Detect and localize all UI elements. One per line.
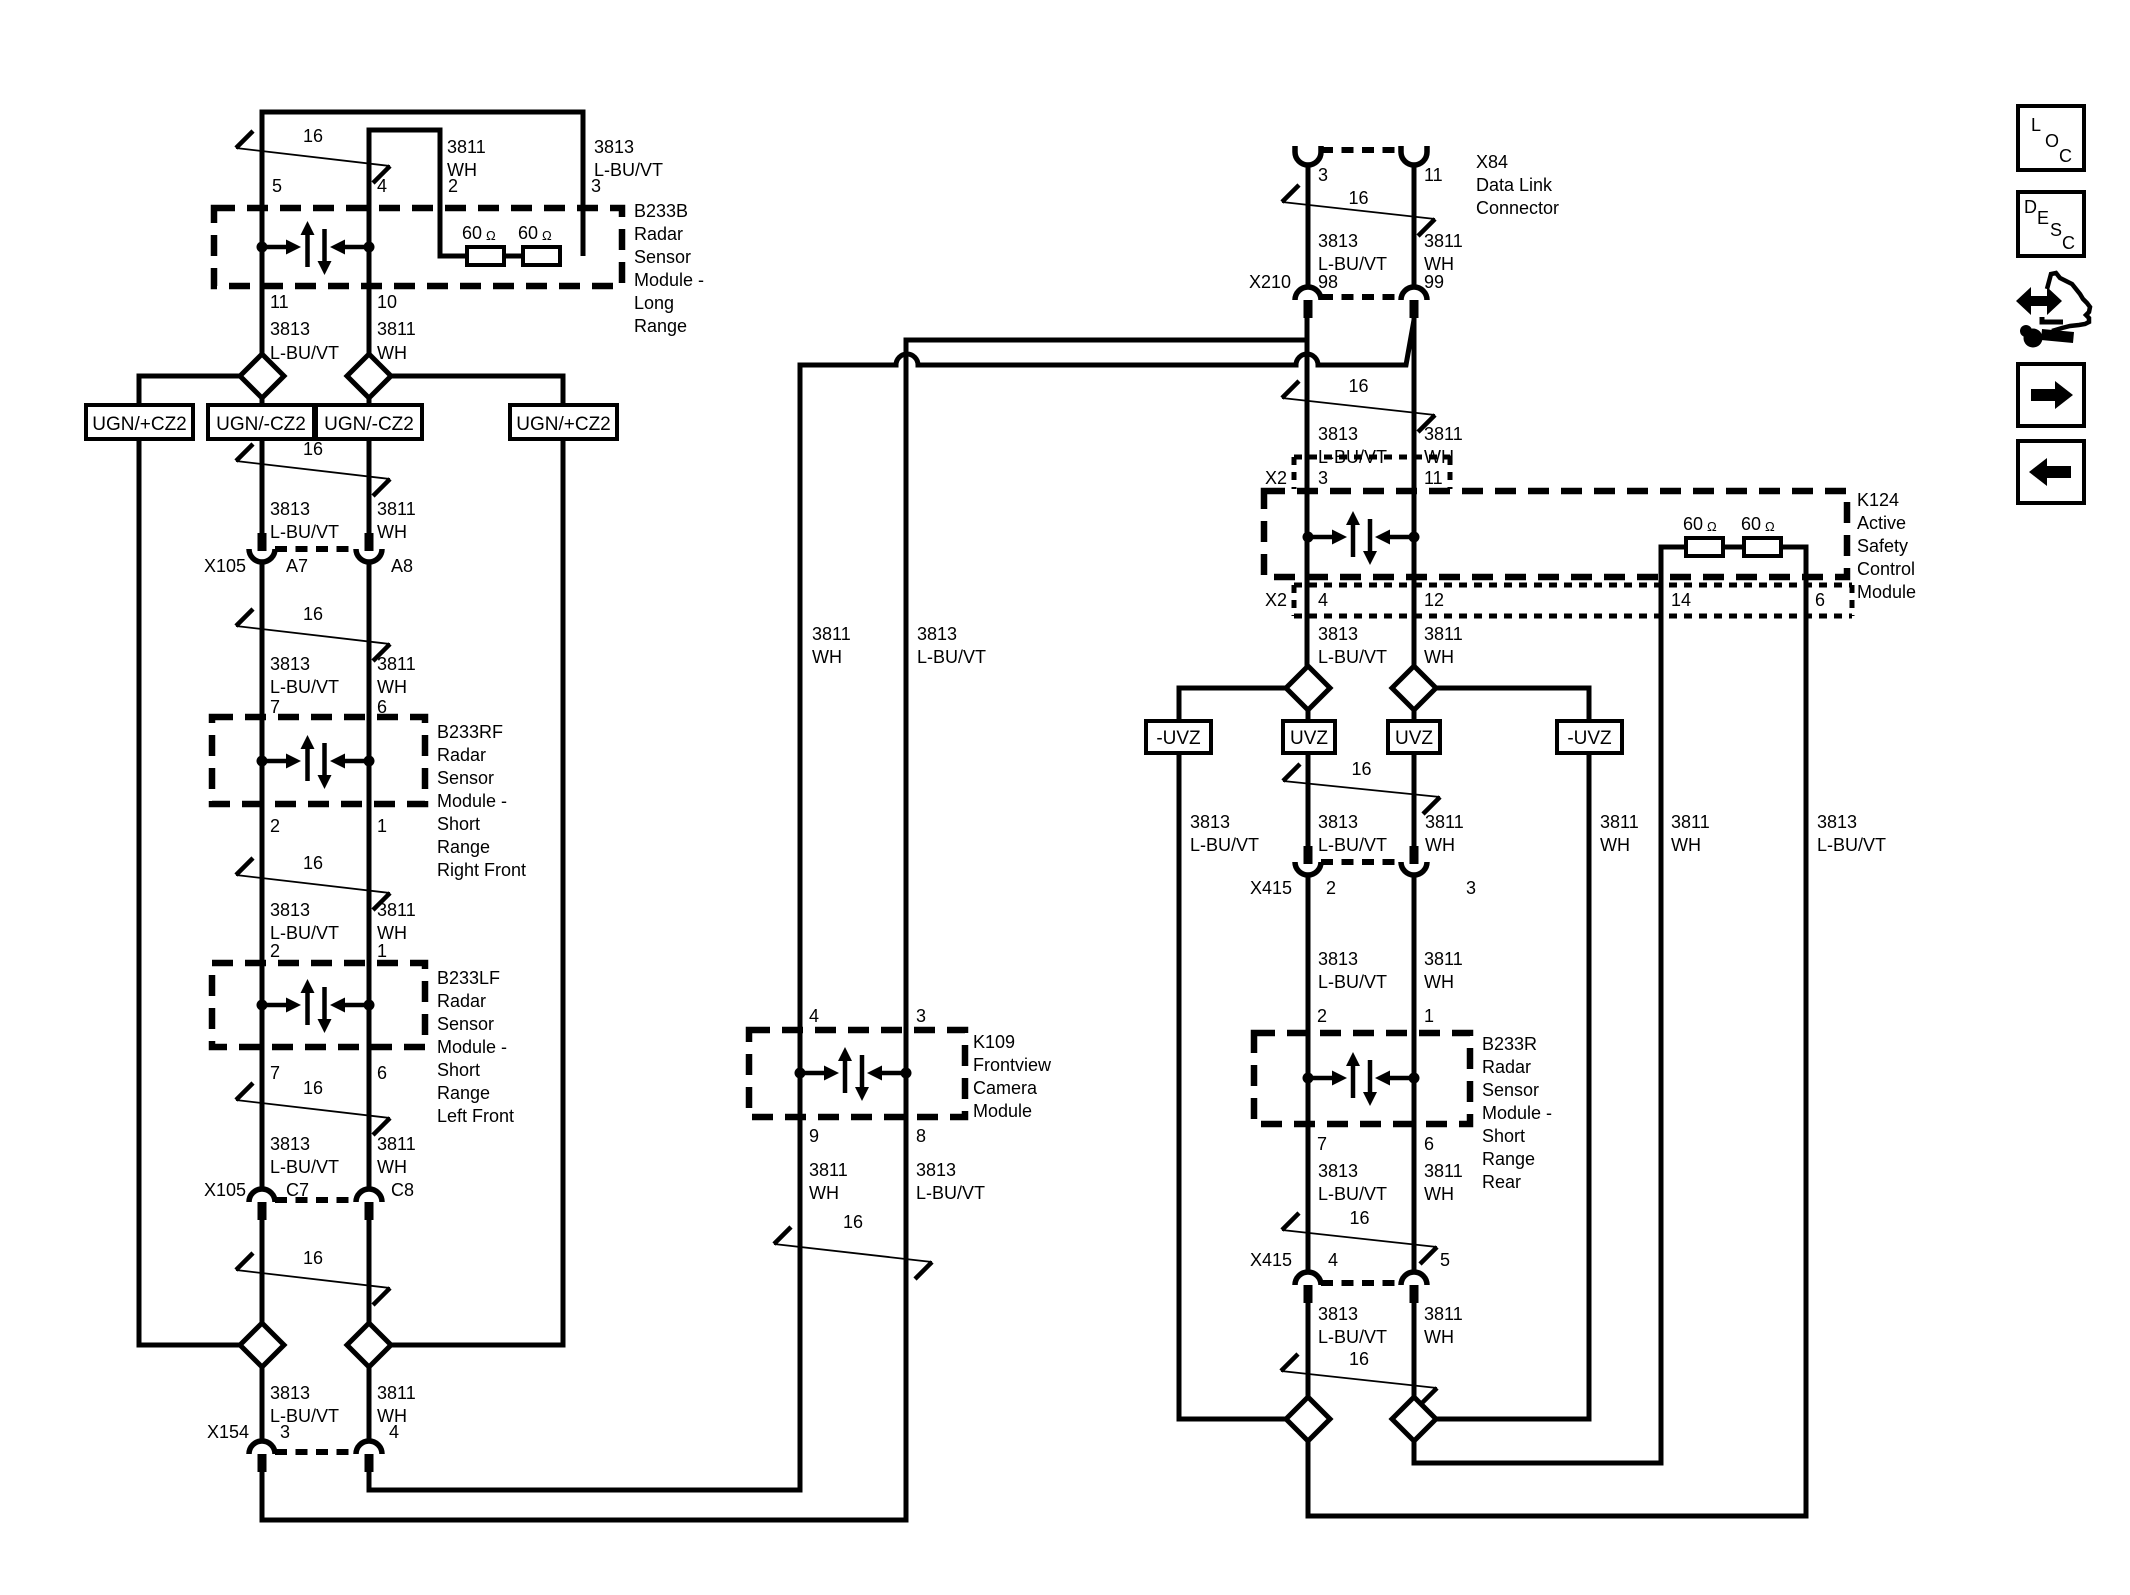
wire 3813 bottom loop to K124 X2 pin 6 with terminating resistor lead xyxy=(1308,547,1806,1516)
svg-text:99: 99 xyxy=(1424,272,1444,292)
svg-text:Control: Control xyxy=(1857,559,1915,579)
wire 3811 splice to X415 pin 3 xyxy=(1412,710,1417,846)
wire 3811 left segment X105 A8 to X105 C8 xyxy=(367,562,372,1188)
connector X154 pins 3 and 4 xyxy=(249,1441,382,1472)
svg-text:3813: 3813 xyxy=(270,1383,310,1403)
svg-text:Short: Short xyxy=(1482,1126,1525,1146)
svg-text:98: 98 xyxy=(1318,272,1338,292)
connector X105 pins A7 and A8 xyxy=(249,533,382,562)
net reference label -UVZ far right xyxy=(1557,721,1622,753)
svg-text:Module: Module xyxy=(973,1101,1032,1121)
wire 3811 X415 pin 3 through B233R to X415 pin 5 xyxy=(1412,875,1417,1271)
wire 3813 left segment X105 A7 to X105 C7 xyxy=(260,562,265,1188)
svg-text:3813: 3813 xyxy=(916,1160,956,1180)
svg-text:Module -: Module - xyxy=(437,791,507,811)
svg-text:UGN/-CZ2: UGN/-CZ2 xyxy=(324,414,414,435)
radar sensor module B233B dashed outline xyxy=(214,208,622,286)
svg-text:3811: 3811 xyxy=(1424,231,1463,251)
svg-text:Module -: Module - xyxy=(437,1037,507,1057)
pin labels B233B 11 10 xyxy=(270,292,397,312)
svg-text:Active: Active xyxy=(1857,513,1906,533)
svg-text:10: 10 xyxy=(377,292,397,312)
connector X2 upper (pins 3, 11) dotted band xyxy=(1294,457,1450,489)
svg-text:Range: Range xyxy=(1482,1149,1535,1169)
svg-text:6: 6 xyxy=(377,697,387,717)
svg-text:5: 5 xyxy=(1440,1250,1450,1270)
junction splice left 3811 lower xyxy=(347,1323,391,1367)
icon connector-view car with arrow and wrench xyxy=(2016,273,2090,348)
svg-text:16: 16 xyxy=(303,126,323,146)
wire labels below X2 xyxy=(1318,624,1463,667)
svg-text:S: S xyxy=(2050,220,2062,240)
svg-text:1: 1 xyxy=(377,816,387,836)
svg-text:K109: K109 xyxy=(973,1032,1015,1052)
connector X84 data link connector sockets pins 3 and 11 xyxy=(1295,146,1427,165)
component name text B233R xyxy=(1482,1034,1552,1192)
svg-text:L-BU/VT: L-BU/VT xyxy=(1318,1327,1387,1347)
resistor R2 in B233B 60 ohm xyxy=(518,223,560,265)
pin labels B233B 5 4 2 3 xyxy=(272,176,601,196)
svg-text:L-BU/VT: L-BU/VT xyxy=(270,1157,339,1177)
svg-text:WH: WH xyxy=(809,1183,839,1203)
twisted-pair CAN symbol inside B233RF xyxy=(257,735,375,789)
svg-text:3811: 3811 xyxy=(377,1383,416,1403)
svg-text:3811: 3811 xyxy=(812,624,851,644)
svg-text:Radar: Radar xyxy=(437,991,486,1011)
svg-text:3811: 3811 xyxy=(1424,1304,1463,1324)
svg-text:3811: 3811 xyxy=(377,1134,416,1154)
svg-text:L-BU/VT: L-BU/VT xyxy=(270,923,339,943)
wire 3811 bottom loop to K124 X2 pin 14 with terminating resistor lead xyxy=(1414,547,1686,1463)
svg-text:7: 7 xyxy=(1317,1134,1327,1154)
svg-text:6: 6 xyxy=(1424,1134,1434,1154)
svg-text:WH: WH xyxy=(1671,835,1701,855)
svg-text:16: 16 xyxy=(303,604,323,624)
svg-text:Data Link: Data Link xyxy=(1476,175,1553,195)
svg-text:Frontview: Frontview xyxy=(973,1055,1052,1075)
svg-text:6: 6 xyxy=(1815,590,1825,610)
svg-text:D: D xyxy=(2024,197,2037,217)
wire gauge marker "16" above X154 xyxy=(236,1248,390,1305)
svg-text:L-BU/VT: L-BU/VT xyxy=(1318,1184,1387,1204)
svg-text:Short: Short xyxy=(437,1060,480,1080)
svg-text:B233B: B233B xyxy=(634,201,688,221)
net reference label UGN/+CZ2 far left xyxy=(86,405,193,439)
wire 3813 from X84 pin 3 to X210 pin 98 xyxy=(1306,165,1311,286)
svg-text:X154: X154 xyxy=(207,1422,249,1442)
svg-text:Range: Range xyxy=(634,316,687,336)
connector label X105 C7 C8 xyxy=(204,1180,414,1200)
svg-text:L-BU/VT: L-BU/VT xyxy=(1190,835,1259,855)
svg-text:3813: 3813 xyxy=(1318,812,1358,832)
net reference label UVZ right xyxy=(1388,721,1440,753)
wire gauge marker "16" below UVZ row xyxy=(1283,759,1440,814)
svg-text:16: 16 xyxy=(1348,188,1368,208)
svg-text:C: C xyxy=(2062,233,2075,253)
svg-text:Module -: Module - xyxy=(634,270,704,290)
svg-text:Rear: Rear xyxy=(1482,1172,1521,1192)
svg-text:Sensor: Sensor xyxy=(1482,1080,1539,1100)
svg-text:4: 4 xyxy=(1328,1250,1338,1270)
svg-text:3811: 3811 xyxy=(377,900,416,920)
twisted-pair CAN symbol inside B233LF xyxy=(257,979,375,1033)
svg-text:-UVZ: -UVZ xyxy=(1567,728,1612,749)
svg-text:X105: X105 xyxy=(204,1180,246,1200)
svg-text:L-BU/VT: L-BU/VT xyxy=(916,1183,985,1203)
connector label X2 lower 4 12 14 6 xyxy=(1265,590,1825,610)
svg-text:16: 16 xyxy=(303,853,323,873)
svg-text:WH: WH xyxy=(1424,254,1454,274)
svg-text:UGN/-CZ2: UGN/-CZ2 xyxy=(216,414,306,435)
wire 3813 L-BU/VT middle: K109 pin 3 up and right to X210 pin 98 wire xyxy=(906,340,1306,1030)
resistor R3 in K124 60 ohm xyxy=(1683,514,1723,556)
svg-text:UGN/+CZ2: UGN/+CZ2 xyxy=(92,414,187,435)
svg-text:WH: WH xyxy=(377,343,407,363)
wire gauge marker "16" below X210 xyxy=(1282,376,1435,432)
pin labels B233LF 7 6 xyxy=(270,1063,387,1083)
svg-text:2: 2 xyxy=(270,816,280,836)
wire labels row above X415 2 3 xyxy=(1190,812,1886,855)
svg-text:3: 3 xyxy=(916,1006,926,1026)
svg-text:3: 3 xyxy=(1318,468,1328,488)
component name text K109 xyxy=(973,1032,1052,1121)
svg-text:Sensor: Sensor xyxy=(437,1014,494,1034)
svg-text:3: 3 xyxy=(1466,878,1476,898)
wire gauge marker "16" above bottom splices xyxy=(1281,1349,1437,1405)
connector label X415 2 3 xyxy=(1250,878,1476,898)
svg-text:11: 11 xyxy=(1424,468,1443,488)
svg-text:Radar: Radar xyxy=(437,745,486,765)
svg-text:L-BU/VT: L-BU/VT xyxy=(1318,447,1387,467)
svg-text:L-BU/VT: L-BU/VT xyxy=(917,647,986,667)
svg-text:B233RF: B233RF xyxy=(437,722,503,742)
svg-text:4: 4 xyxy=(809,1006,819,1026)
svg-text:K124: K124 xyxy=(1857,490,1899,510)
svg-text:UVZ: UVZ xyxy=(1290,728,1328,749)
svg-text:L-BU/VT: L-BU/VT xyxy=(270,522,339,542)
wire 3811 left segment C8 to X154 pin 4 xyxy=(367,1220,372,1440)
svg-text:Camera: Camera xyxy=(973,1078,1038,1098)
active safety control module K124 dashed outline xyxy=(1264,491,1847,577)
svg-text:3: 3 xyxy=(280,1422,290,1442)
wire labels above B233RF xyxy=(270,654,416,697)
wire labels above X105 A7 A8 xyxy=(270,499,416,542)
svg-text:12: 12 xyxy=(1424,590,1444,610)
svg-text:3811: 3811 xyxy=(1424,624,1463,644)
svg-text:4: 4 xyxy=(1318,590,1328,610)
pin labels B233RF 2 1 xyxy=(270,816,387,836)
svg-text:Sensor: Sensor xyxy=(634,247,691,267)
connector label X154 3 4 xyxy=(207,1422,399,1442)
svg-text:WH: WH xyxy=(377,923,407,943)
net reference label UGN/-CZ2 right xyxy=(316,405,422,439)
wire 3811 from X210 pin 99 through K124 X2 pin 11/12 to splice xyxy=(1412,318,1417,666)
svg-text:WH: WH xyxy=(1424,1184,1454,1204)
twisted-pair CAN symbol inside K109 xyxy=(795,1047,912,1101)
svg-text:Safety: Safety xyxy=(1857,536,1908,556)
junction splice right 3811 lower xyxy=(1392,1397,1436,1441)
svg-text:9: 9 xyxy=(809,1126,819,1146)
connector label X105 A7 A8 xyxy=(204,556,413,576)
svg-text:3811: 3811 xyxy=(1424,949,1463,969)
svg-text:3811: 3811 xyxy=(377,499,416,519)
wire 3813 from X210 pin 98 through K124 X2 pin 3/4 to splice xyxy=(1305,318,1310,666)
svg-text:16: 16 xyxy=(303,439,323,459)
svg-text:WH: WH xyxy=(1425,835,1455,855)
svg-text:Range: Range xyxy=(437,1083,490,1103)
wire labels above X105 C7 C8 xyxy=(270,1134,416,1177)
svg-text:WH: WH xyxy=(1600,835,1630,855)
icon box LOC xyxy=(2018,106,2084,170)
wire gauge marker "16" below B233R xyxy=(1282,1208,1437,1264)
svg-text:4: 4 xyxy=(377,176,387,196)
svg-text:1: 1 xyxy=(377,941,387,961)
wire labels below B233R xyxy=(1318,1161,1463,1204)
svg-text:3813: 3813 xyxy=(1190,812,1230,832)
connector X105 pins C7 and C8 xyxy=(249,1189,382,1220)
wire labels between B233RF B233LF xyxy=(270,900,416,943)
svg-text:3: 3 xyxy=(1318,165,1328,185)
svg-text:L-BU/VT: L-BU/VT xyxy=(270,677,339,697)
svg-text:3813: 3813 xyxy=(1318,1304,1358,1324)
twisted-pair CAN symbol inside B233B xyxy=(257,221,375,275)
svg-text:2: 2 xyxy=(270,941,280,961)
svg-text:X210: X210 xyxy=(1249,272,1291,292)
svg-text:Radar: Radar xyxy=(1482,1057,1531,1077)
pin labels B233R 2 1 xyxy=(1317,1006,1434,1026)
svg-text:WH: WH xyxy=(447,160,477,180)
wire labels above B233R xyxy=(1318,949,1463,992)
svg-text:16: 16 xyxy=(303,1078,323,1098)
wire gauge marker "16" below X84 xyxy=(1282,185,1435,236)
component name text B233B xyxy=(634,201,704,336)
pin labels B233LF 2 1 xyxy=(270,941,387,961)
svg-text:-UVZ: -UVZ xyxy=(1156,728,1201,749)
svg-text:C: C xyxy=(2059,146,2072,166)
svg-text:L: L xyxy=(2031,115,2041,135)
wire 3811 WH middle: K109 pin 4 up to X210 pin 99 horizontal with hops xyxy=(800,320,1414,1030)
svg-text:X2: X2 xyxy=(1265,468,1287,488)
svg-text:3813: 3813 xyxy=(1318,624,1358,644)
svg-text:8: 8 xyxy=(916,1126,926,1146)
wire gauge marker "16" below B233LF xyxy=(236,1078,390,1135)
radar sensor module B233RF dashed outline xyxy=(212,717,425,804)
wire 3813 splice to X415 pin 2 xyxy=(1306,710,1311,846)
svg-text:X415: X415 xyxy=(1250,1250,1292,1270)
svg-text:C7: C7 xyxy=(286,1180,309,1200)
twisted-pair CAN symbol inside B233R xyxy=(1303,1052,1420,1106)
svg-text:WH: WH xyxy=(1424,447,1454,467)
net reference label UGN/+CZ2 far right xyxy=(510,405,617,439)
svg-text:16: 16 xyxy=(1349,1208,1369,1228)
pin labels K109 4 3 xyxy=(809,1006,926,1026)
svg-text:X105: X105 xyxy=(204,556,246,576)
junction splice left 3811 upper xyxy=(347,354,391,398)
svg-text:3813: 3813 xyxy=(270,900,310,920)
svg-text:L-BU/VT: L-BU/VT xyxy=(1318,254,1387,274)
junction splice right 3811 upper xyxy=(1392,666,1436,710)
wire 3811 from X84 pin 11 to X210 pin 99 xyxy=(1412,165,1417,286)
svg-text:3811: 3811 xyxy=(377,654,416,674)
svg-text:3811: 3811 xyxy=(1671,812,1710,832)
pin labels K109 9 8 xyxy=(809,1126,926,1146)
wire UGN/+CZ2 left outer loop xyxy=(139,376,240,1345)
svg-text:Module -: Module - xyxy=(1482,1103,1552,1123)
svg-text:E: E xyxy=(2037,208,2049,228)
wire 3813 X415 pin 2 through B233R to X415 pin 4 xyxy=(1306,875,1311,1271)
svg-text:Long: Long xyxy=(634,293,674,313)
svg-text:3813: 3813 xyxy=(1817,812,1857,832)
resistor R4 in K124 60 ohm xyxy=(1741,514,1781,556)
svg-text:X2: X2 xyxy=(1265,590,1287,610)
connector X2 lower (pins 4, 12, 14, 6) dotted band xyxy=(1294,585,1852,616)
svg-text:16: 16 xyxy=(1349,1349,1369,1369)
svg-text:L-BU/VT: L-BU/VT xyxy=(1817,835,1886,855)
icon box DESC xyxy=(2018,192,2084,256)
pin labels X84 3 11 xyxy=(1318,165,1443,185)
svg-text:WH: WH xyxy=(377,1157,407,1177)
component name text X84 xyxy=(1476,152,1559,218)
svg-text:16: 16 xyxy=(843,1212,863,1232)
svg-text:L-BU/VT: L-BU/VT xyxy=(1318,835,1387,855)
svg-text:WH: WH xyxy=(377,522,407,542)
junction splice left 3813 upper xyxy=(240,354,284,398)
radar sensor module B233R dashed outline xyxy=(1254,1033,1470,1124)
svg-text:L-BU/VT: L-BU/VT xyxy=(270,343,339,363)
svg-text:3811: 3811 xyxy=(1424,424,1463,444)
radar sensor module B233LF dashed outline xyxy=(212,963,425,1047)
svg-text:Left Front: Left Front xyxy=(437,1106,514,1126)
wire resistor link inside K124 xyxy=(1723,545,1744,550)
svg-text:14: 14 xyxy=(1671,590,1691,610)
svg-text:16: 16 xyxy=(303,1248,323,1268)
svg-text:WH: WH xyxy=(1424,647,1454,667)
svg-text:3813: 3813 xyxy=(1318,231,1358,251)
svg-text:Right Front: Right Front xyxy=(437,860,526,880)
wire gauge marker "16" between B233RF and B233LF xyxy=(236,853,390,910)
connector label X2 upper 3 11 xyxy=(1265,468,1443,488)
svg-text:3813: 3813 xyxy=(1318,949,1358,969)
svg-text:3813: 3813 xyxy=(270,654,310,674)
svg-text:3811: 3811 xyxy=(1424,1161,1463,1181)
frontview camera module K109 dashed outline xyxy=(749,1030,965,1117)
svg-text:3813: 3813 xyxy=(270,499,310,519)
svg-text:L-BU/VT: L-BU/VT xyxy=(1318,647,1387,667)
pin labels B233RF 7 6 xyxy=(270,697,387,717)
svg-text:Range: Range xyxy=(437,837,490,857)
wire gauge marker "16" below UGN row xyxy=(236,439,390,496)
wire 3811 WH left: jog through B233B pin 4/pin 2 xyxy=(369,130,467,533)
svg-text:L-BU/VT: L-BU/VT xyxy=(1318,972,1387,992)
twisted-pair CAN symbol inside K124 xyxy=(1303,511,1420,565)
svg-text:WH: WH xyxy=(812,647,842,667)
wire labels above X154 xyxy=(270,1383,416,1426)
svg-text:4: 4 xyxy=(389,1422,399,1442)
connector X415 pins 2 and 3 xyxy=(1295,846,1427,875)
svg-text:1: 1 xyxy=(1424,1006,1434,1026)
svg-text:A8: A8 xyxy=(391,556,413,576)
svg-text:L-BU/VT: L-BU/VT xyxy=(594,160,663,180)
svg-text:3813: 3813 xyxy=(1318,424,1358,444)
wire UGN/+CZ2 right outer loop xyxy=(391,376,563,1345)
svg-text:3811: 3811 xyxy=(1600,812,1639,832)
wire -UVZ right loop xyxy=(1436,688,1589,1419)
wire 3813 X415 pin 4 to bottom splice xyxy=(1306,1303,1311,1397)
wire resistor link inside B233B xyxy=(499,254,523,259)
net reference label -UVZ far left xyxy=(1146,721,1211,753)
svg-text:11: 11 xyxy=(270,292,289,312)
component name text B233LF xyxy=(437,968,514,1126)
svg-text:3813: 3813 xyxy=(1318,1161,1358,1181)
wire gauge marker "16" top B233B xyxy=(236,126,390,183)
connector X415 pins 4 and 5 xyxy=(1295,1272,1427,1303)
connector label X210 98 99 xyxy=(1249,272,1444,292)
wire labels below B233B xyxy=(270,319,416,363)
wire labels below X415 4 5 xyxy=(1318,1304,1463,1347)
svg-text:5: 5 xyxy=(272,176,282,196)
svg-text:6: 6 xyxy=(377,1063,387,1083)
svg-text:3813: 3813 xyxy=(917,624,957,644)
svg-text:X84: X84 xyxy=(1476,152,1508,172)
svg-text:B233LF: B233LF xyxy=(437,968,500,988)
svg-text:Sensor: Sensor xyxy=(437,768,494,788)
net reference label UVZ left xyxy=(1283,721,1335,753)
connector label X415 4 5 xyxy=(1250,1250,1450,1270)
svg-text:Connector: Connector xyxy=(1476,198,1559,218)
wire labels below K109 xyxy=(809,1160,985,1203)
svg-text:2: 2 xyxy=(1317,1006,1327,1026)
wire 3813 from X154 pin 3 to K109 pin 8 bottom run xyxy=(262,1026,906,1520)
wire 3811 X415 pin 5 to bottom splice xyxy=(1412,1303,1417,1397)
svg-text:3811: 3811 xyxy=(809,1160,848,1180)
svg-text:11: 11 xyxy=(1424,165,1443,185)
wire labels below X84 xyxy=(1318,231,1463,274)
wire gauge marker "16" above B233RF xyxy=(236,604,390,661)
svg-text:Module: Module xyxy=(1857,582,1916,602)
svg-text:Short: Short xyxy=(437,814,480,834)
wire -UVZ left loop xyxy=(1179,688,1286,1419)
svg-text:Radar: Radar xyxy=(634,224,683,244)
component name text K124 xyxy=(1857,490,1916,602)
svg-text:O: O xyxy=(2045,131,2059,151)
svg-text:A7: A7 xyxy=(286,556,308,576)
svg-text:3813: 3813 xyxy=(270,319,310,339)
wire labels middle 3811 WH / 3813 L-BU/VT xyxy=(812,624,986,667)
svg-text:UVZ: UVZ xyxy=(1395,728,1433,749)
svg-text:3811: 3811 xyxy=(377,319,416,339)
wire gauge marker "16" above K109 xyxy=(774,1212,932,1279)
svg-text:WH: WH xyxy=(1424,1327,1454,1347)
icon box arrow left xyxy=(2018,441,2084,503)
svg-text:3813: 3813 xyxy=(270,1134,310,1154)
wire labels above X2 xyxy=(1318,424,1463,467)
wire 3811 from X154 pin 4 to K109 pin 9 bottom run xyxy=(369,1026,800,1490)
svg-text:X415: X415 xyxy=(1250,878,1292,898)
svg-text:3811: 3811 xyxy=(1425,812,1464,832)
svg-text:WH: WH xyxy=(377,677,407,697)
component name text B233RF xyxy=(437,722,526,880)
icon box arrow right xyxy=(2018,364,2084,426)
pin labels B233R 7 6 xyxy=(1317,1134,1434,1154)
svg-text:7: 7 xyxy=(270,697,280,717)
svg-text:3811: 3811 xyxy=(447,137,486,157)
wire 3813 L-BU/VT left: top loop through B233B pin 5/pin 3 xyxy=(262,112,583,533)
svg-text:WH: WH xyxy=(1424,972,1454,992)
net reference label UGN/-CZ2 left xyxy=(208,405,314,439)
junction splice right 3813 upper xyxy=(1286,666,1330,710)
junction splice left 3813 lower xyxy=(240,1323,284,1367)
wire label 3811 WH top jog xyxy=(447,137,486,180)
